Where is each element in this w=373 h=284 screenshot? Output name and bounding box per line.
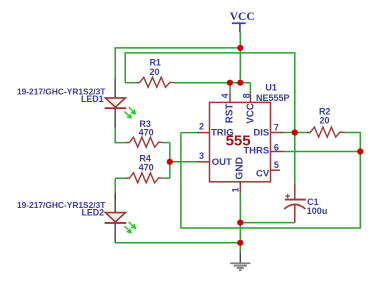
svg-text:LED2: LED2 <box>82 208 105 218</box>
svg-text:U1: U1 <box>265 83 277 93</box>
svg-text:100u: 100u <box>307 206 328 216</box>
svg-text:2: 2 <box>199 121 204 131</box>
svg-text:4: 4 <box>220 93 230 98</box>
svg-text:VCC: VCC <box>230 11 255 23</box>
svg-text:DIS: DIS <box>253 127 269 138</box>
svg-text:1: 1 <box>231 187 241 192</box>
svg-text:NE555P: NE555P <box>256 93 290 103</box>
svg-text:5: 5 <box>274 160 279 170</box>
svg-text:8: 8 <box>241 93 251 98</box>
svg-text:R1: R1 <box>149 57 161 67</box>
svg-text:6: 6 <box>274 142 279 152</box>
svg-text:20: 20 <box>319 116 329 126</box>
svg-text:470: 470 <box>139 127 154 137</box>
svg-text:7: 7 <box>274 123 279 133</box>
svg-text:RST: RST <box>224 104 235 124</box>
svg-text:OUT: OUT <box>212 157 232 168</box>
svg-text:CV: CV <box>256 168 270 179</box>
svg-text:VCC: VCC <box>245 103 256 124</box>
svg-text:GND: GND <box>234 157 245 180</box>
svg-text:470: 470 <box>139 162 154 172</box>
svg-text:555: 555 <box>226 133 251 150</box>
svg-text:LED1: LED1 <box>81 94 104 104</box>
svg-text:3: 3 <box>199 151 204 161</box>
svg-text:20: 20 <box>149 67 159 77</box>
